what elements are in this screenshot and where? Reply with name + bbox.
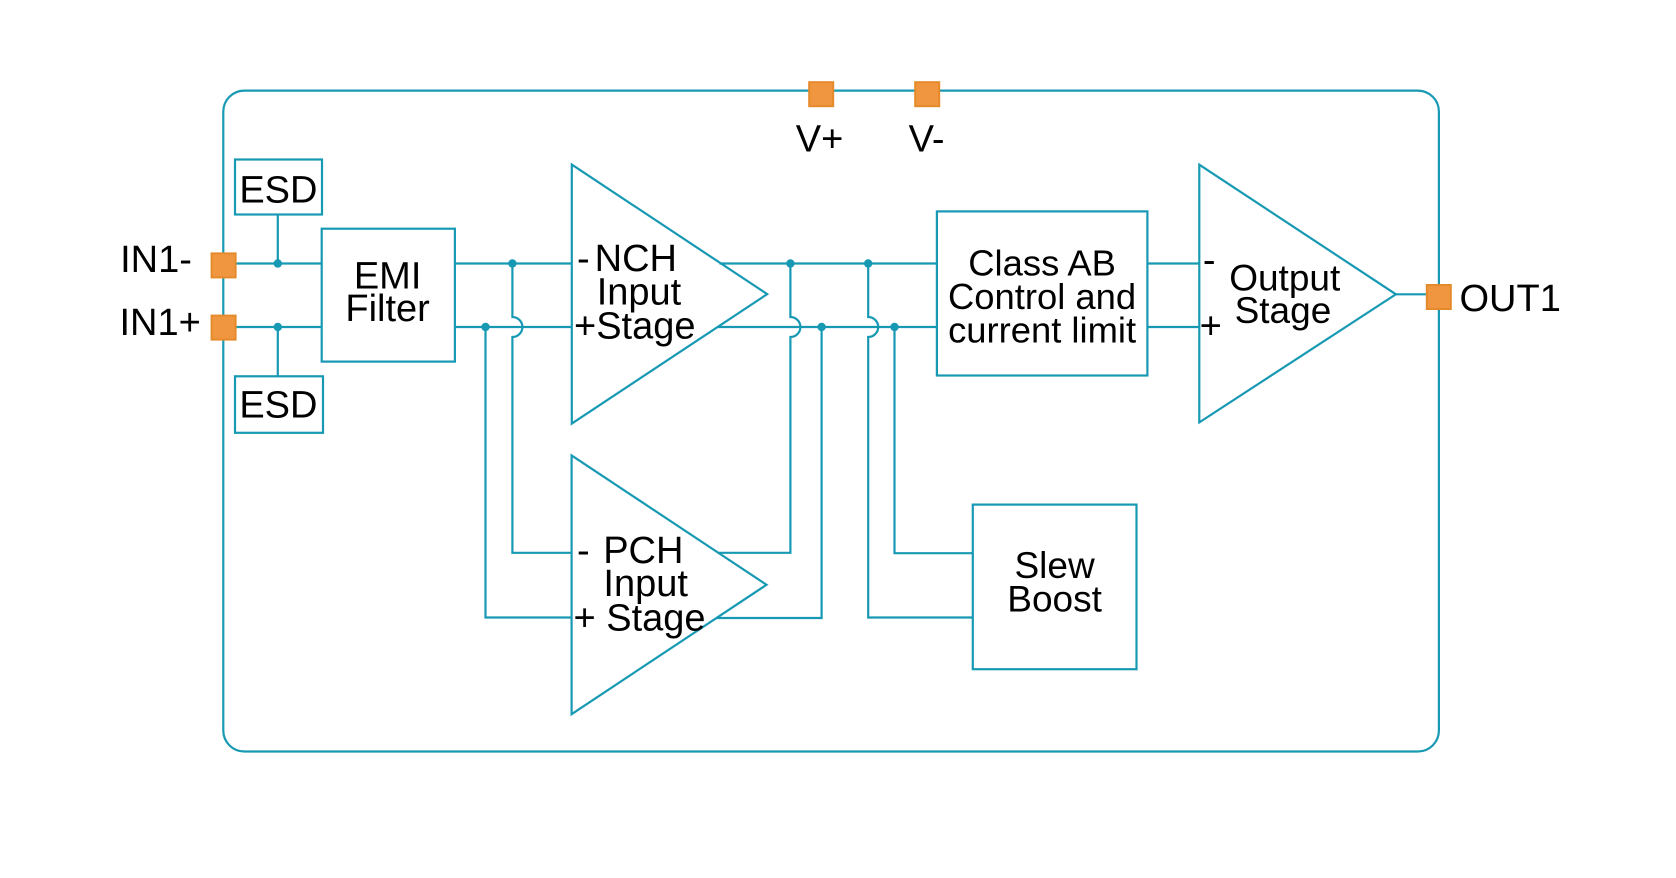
junction dot IN1- / ESD1 [274, 259, 282, 267]
wire node C down to PCH upper slant tap (with hop over lower bus) [719, 264, 801, 553]
label Output Stage plus input [1200, 305, 1222, 347]
junction dot node B [481, 323, 489, 331]
label PCH Input Stage [574, 530, 706, 640]
ESD block 2 [235, 376, 323, 433]
junction dot node F [890, 323, 898, 331]
wire node A down to PCH inverting input (with hop over lower bus) [512, 264, 571, 553]
svg-text:IN1+: IN1+ [120, 302, 201, 344]
svg-text:Filter: Filter [345, 288, 430, 330]
ESD block 1 [235, 160, 322, 215]
EMI Filter block [322, 229, 455, 362]
wire Class AB to Output stage non-inverting input [1147, 326, 1199, 328]
svg-text:V-: V- [909, 119, 945, 161]
label IN1+ [120, 302, 201, 344]
label V+ [796, 119, 844, 161]
wire node E down to Slew Boost lower input (with hop over lower bus) [868, 264, 973, 618]
label Slew Boost [1007, 545, 1102, 620]
svg-text:V+: V+ [796, 119, 844, 161]
outer IC boundary box [223, 91, 1439, 752]
wire EMI filter to NCH input stage (non-inverting bus) [455, 326, 572, 328]
label ESD (top) [239, 170, 317, 212]
wire IN1+ pin to EMI filter [223, 326, 321, 328]
pin pad OUT1 [1427, 285, 1451, 309]
junction dot node E [864, 259, 872, 267]
Class AB Control and current limit block [937, 211, 1148, 375]
svg-text:-: - [1203, 240, 1216, 282]
svg-text:ESD: ESD [239, 170, 317, 212]
svg-text:+: + [1200, 305, 1222, 347]
svg-text:current limit: current limit [948, 310, 1136, 351]
junction dot IN1+ / ESD2 [274, 323, 282, 331]
op-amp PCH Input Stage triangle [572, 455, 767, 714]
wire node F down to Slew Boost upper input [895, 327, 973, 553]
pin pad V- [915, 82, 939, 106]
svg-text:OUT1: OUT1 [1460, 278, 1561, 320]
junction dot node D [817, 323, 825, 331]
junction dot node A [508, 259, 516, 267]
junction dot node C [786, 259, 794, 267]
pin pad IN1+ [212, 316, 236, 340]
label ESD (bottom) [239, 385, 317, 427]
svg-text:Boost: Boost [1007, 579, 1102, 620]
op-amp NCH Input Stage triangle [572, 165, 767, 424]
wire Class AB to Output stage inverting input [1147, 262, 1199, 264]
op-amp Output Stage triangle [1199, 165, 1396, 423]
label Output Stage [1229, 258, 1341, 331]
wire Output stage apex to OUT1 pin [1396, 293, 1426, 295]
label OUT1 [1460, 278, 1561, 320]
svg-text:+ Stage: + Stage [574, 598, 706, 640]
label Output Stage minus input [1203, 240, 1216, 282]
Slew Boost block [973, 505, 1137, 670]
wire ESD2 to IN1+ net [277, 327, 279, 376]
wire node D down to PCH lower slant tap [717, 327, 822, 618]
label NCH Input Stage [574, 238, 696, 347]
wire NCH output bottom to Class AB block [718, 326, 937, 328]
label V- [909, 119, 945, 161]
wire EMI filter to NCH input stage (inverting bus) [455, 262, 572, 264]
wire node B down to PCH non-inverting input [486, 327, 572, 618]
svg-text:Stage: Stage [1235, 290, 1332, 331]
wire ESD1 to IN1- net [277, 215, 279, 264]
svg-text:IN1-: IN1- [120, 239, 192, 281]
wire IN1- pin to EMI filter [223, 262, 321, 264]
wire NCH output top to Class AB block [720, 262, 937, 264]
svg-text:+Stage: +Stage [574, 305, 696, 347]
pin pad V+ [809, 82, 833, 106]
label EMI Filter [345, 255, 430, 330]
svg-text:ESD: ESD [239, 385, 317, 427]
label IN1- [120, 239, 192, 281]
pin pad IN1- [212, 253, 236, 277]
label Class AB Control and current limit [948, 243, 1136, 351]
